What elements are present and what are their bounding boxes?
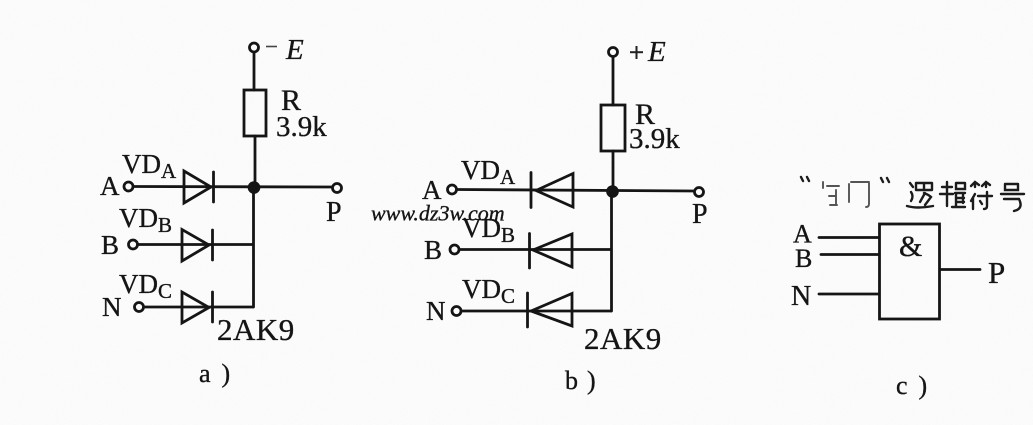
- svg-text:B: B: [424, 235, 442, 265]
- svg-text:N: N: [791, 281, 811, 312]
- svg-text:P: P: [692, 199, 708, 230]
- svg-text:E: E: [285, 34, 304, 66]
- svg-text:www.dz3w.com: www.dz3w.com: [371, 201, 505, 226]
- svg-text:P: P: [326, 197, 342, 228]
- svg-text:2AK9: 2AK9: [584, 321, 662, 356]
- svg-text:&: &: [899, 230, 922, 263]
- svg-text:P: P: [988, 255, 1005, 290]
- svg-text:N: N: [426, 296, 446, 326]
- svg-text:E: E: [647, 36, 666, 68]
- svg-text:A: A: [100, 171, 120, 201]
- svg-text:2AK9: 2AK9: [217, 312, 295, 347]
- svg-text:B: B: [795, 244, 812, 273]
- svg-text:3.9k: 3.9k: [276, 111, 327, 143]
- svg-text:3.9k: 3.9k: [629, 123, 680, 155]
- svg-text:B: B: [101, 230, 119, 260]
